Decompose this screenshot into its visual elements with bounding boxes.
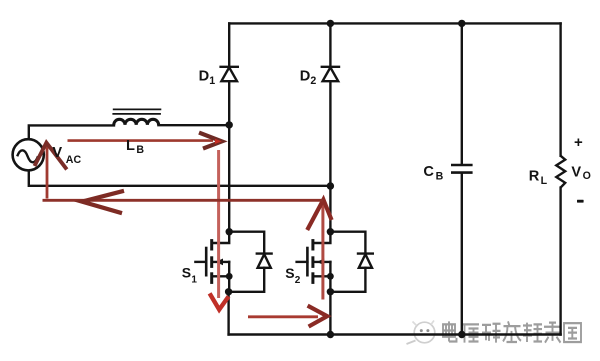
drain stub — [313, 232, 331, 243]
svg-text:1: 1 — [191, 275, 197, 286]
svg-text:V: V — [571, 164, 581, 180]
body diode of S2 — [330, 232, 373, 292]
svg-text:L: L — [126, 138, 135, 154]
AC source VAC circle — [13, 139, 44, 170]
svg-text:D: D — [300, 68, 311, 84]
node: S1 source — [225, 288, 232, 295]
mosfet S1 — [195, 232, 229, 292]
gate bar — [306, 248, 309, 275]
svg-text:L: L — [541, 175, 548, 187]
body stub with arrow — [212, 261, 230, 263]
wire: red path down through S1 — [210, 150, 229, 310]
resistor RL zigzag — [556, 156, 565, 188]
wire: S2 source to bottom rail — [329, 292, 331, 335]
wire: AC source bottom wire to node B — [29, 171, 331, 186]
source stub — [313, 276, 331, 292]
svg-text:O: O — [583, 170, 591, 182]
mosfet S2 — [297, 232, 331, 292]
svg-text:B: B — [136, 144, 144, 156]
node A junction dot (LB to D1/S1) — [226, 121, 233, 128]
wire: red arrow into S2 source (right) — [248, 306, 327, 327]
wire: RL branch vertical — [559, 23, 561, 155]
svg-text:S: S — [182, 264, 191, 280]
node: S1 source stub — [226, 273, 233, 280]
capacitor CB plates — [451, 165, 473, 173]
diode D2 — [322, 67, 339, 81]
node: top rail to CB — [458, 20, 465, 27]
source stub — [212, 276, 230, 292]
channel segments — [311, 241, 314, 249]
inductor LB core bars — [112, 109, 161, 114]
node: S2 source stub — [327, 273, 334, 280]
drain stub — [212, 232, 230, 243]
wire: branch D1/S1 vertical (node A column) — [228, 23, 230, 66]
svg-text:+: + — [574, 134, 583, 151]
node: S2 to bottom rail — [327, 331, 334, 338]
watermark text 电源研发精英圈 (pseudo-glyph strokes) — [443, 321, 581, 342]
node: S1 drain — [226, 228, 233, 235]
gate lead — [195, 261, 206, 263]
wire: red path up into VAC — [35, 143, 67, 199]
svg-text:V: V — [52, 145, 62, 161]
node B junction dot (AC return to D2/S2) — [327, 182, 334, 189]
inductor LB winding — [114, 119, 159, 125]
wire: red return path (left) — [43, 191, 323, 213]
label minus — [577, 200, 584, 203]
node: CB to bottom rail — [458, 331, 465, 338]
diode D1 — [221, 67, 238, 81]
wire: inductor output to node A — [158, 124, 229, 126]
gate bar — [205, 248, 208, 275]
wire: branch D2/S2 vertical (node B column) — [329, 23, 331, 66]
svg-text:AC: AC — [66, 154, 82, 166]
body stub with arrow — [313, 261, 331, 263]
wire: AC source top wire to inductor and node A — [29, 125, 114, 139]
wire: bottom rail — [229, 333, 561, 335]
svg-text:S: S — [285, 265, 294, 281]
channel segments — [210, 241, 213, 249]
wire: red path up through S2 — [307, 200, 331, 300]
svg-text:1: 1 — [209, 75, 215, 87]
wire: CB branch vertical — [461, 23, 463, 164]
node: S2 source — [327, 288, 334, 295]
svg-text:C: C — [423, 164, 434, 180]
svg-text:2: 2 — [295, 275, 301, 286]
svg-text:2: 2 — [310, 75, 316, 87]
svg-text:R: R — [529, 169, 540, 185]
wire: S1 source to bottom rail — [227, 292, 229, 335]
wire: top rail — [229, 22, 560, 24]
gate lead — [297, 261, 308, 263]
body diode of S1 — [229, 232, 272, 292]
wire: red arrow through LB (right) — [68, 133, 222, 149]
node: top rail to D2 — [327, 20, 334, 27]
node: S2 drain — [327, 228, 334, 235]
svg-text:B: B — [436, 171, 444, 183]
svg-text:D: D — [199, 68, 210, 84]
watermark logo — [407, 321, 435, 345]
